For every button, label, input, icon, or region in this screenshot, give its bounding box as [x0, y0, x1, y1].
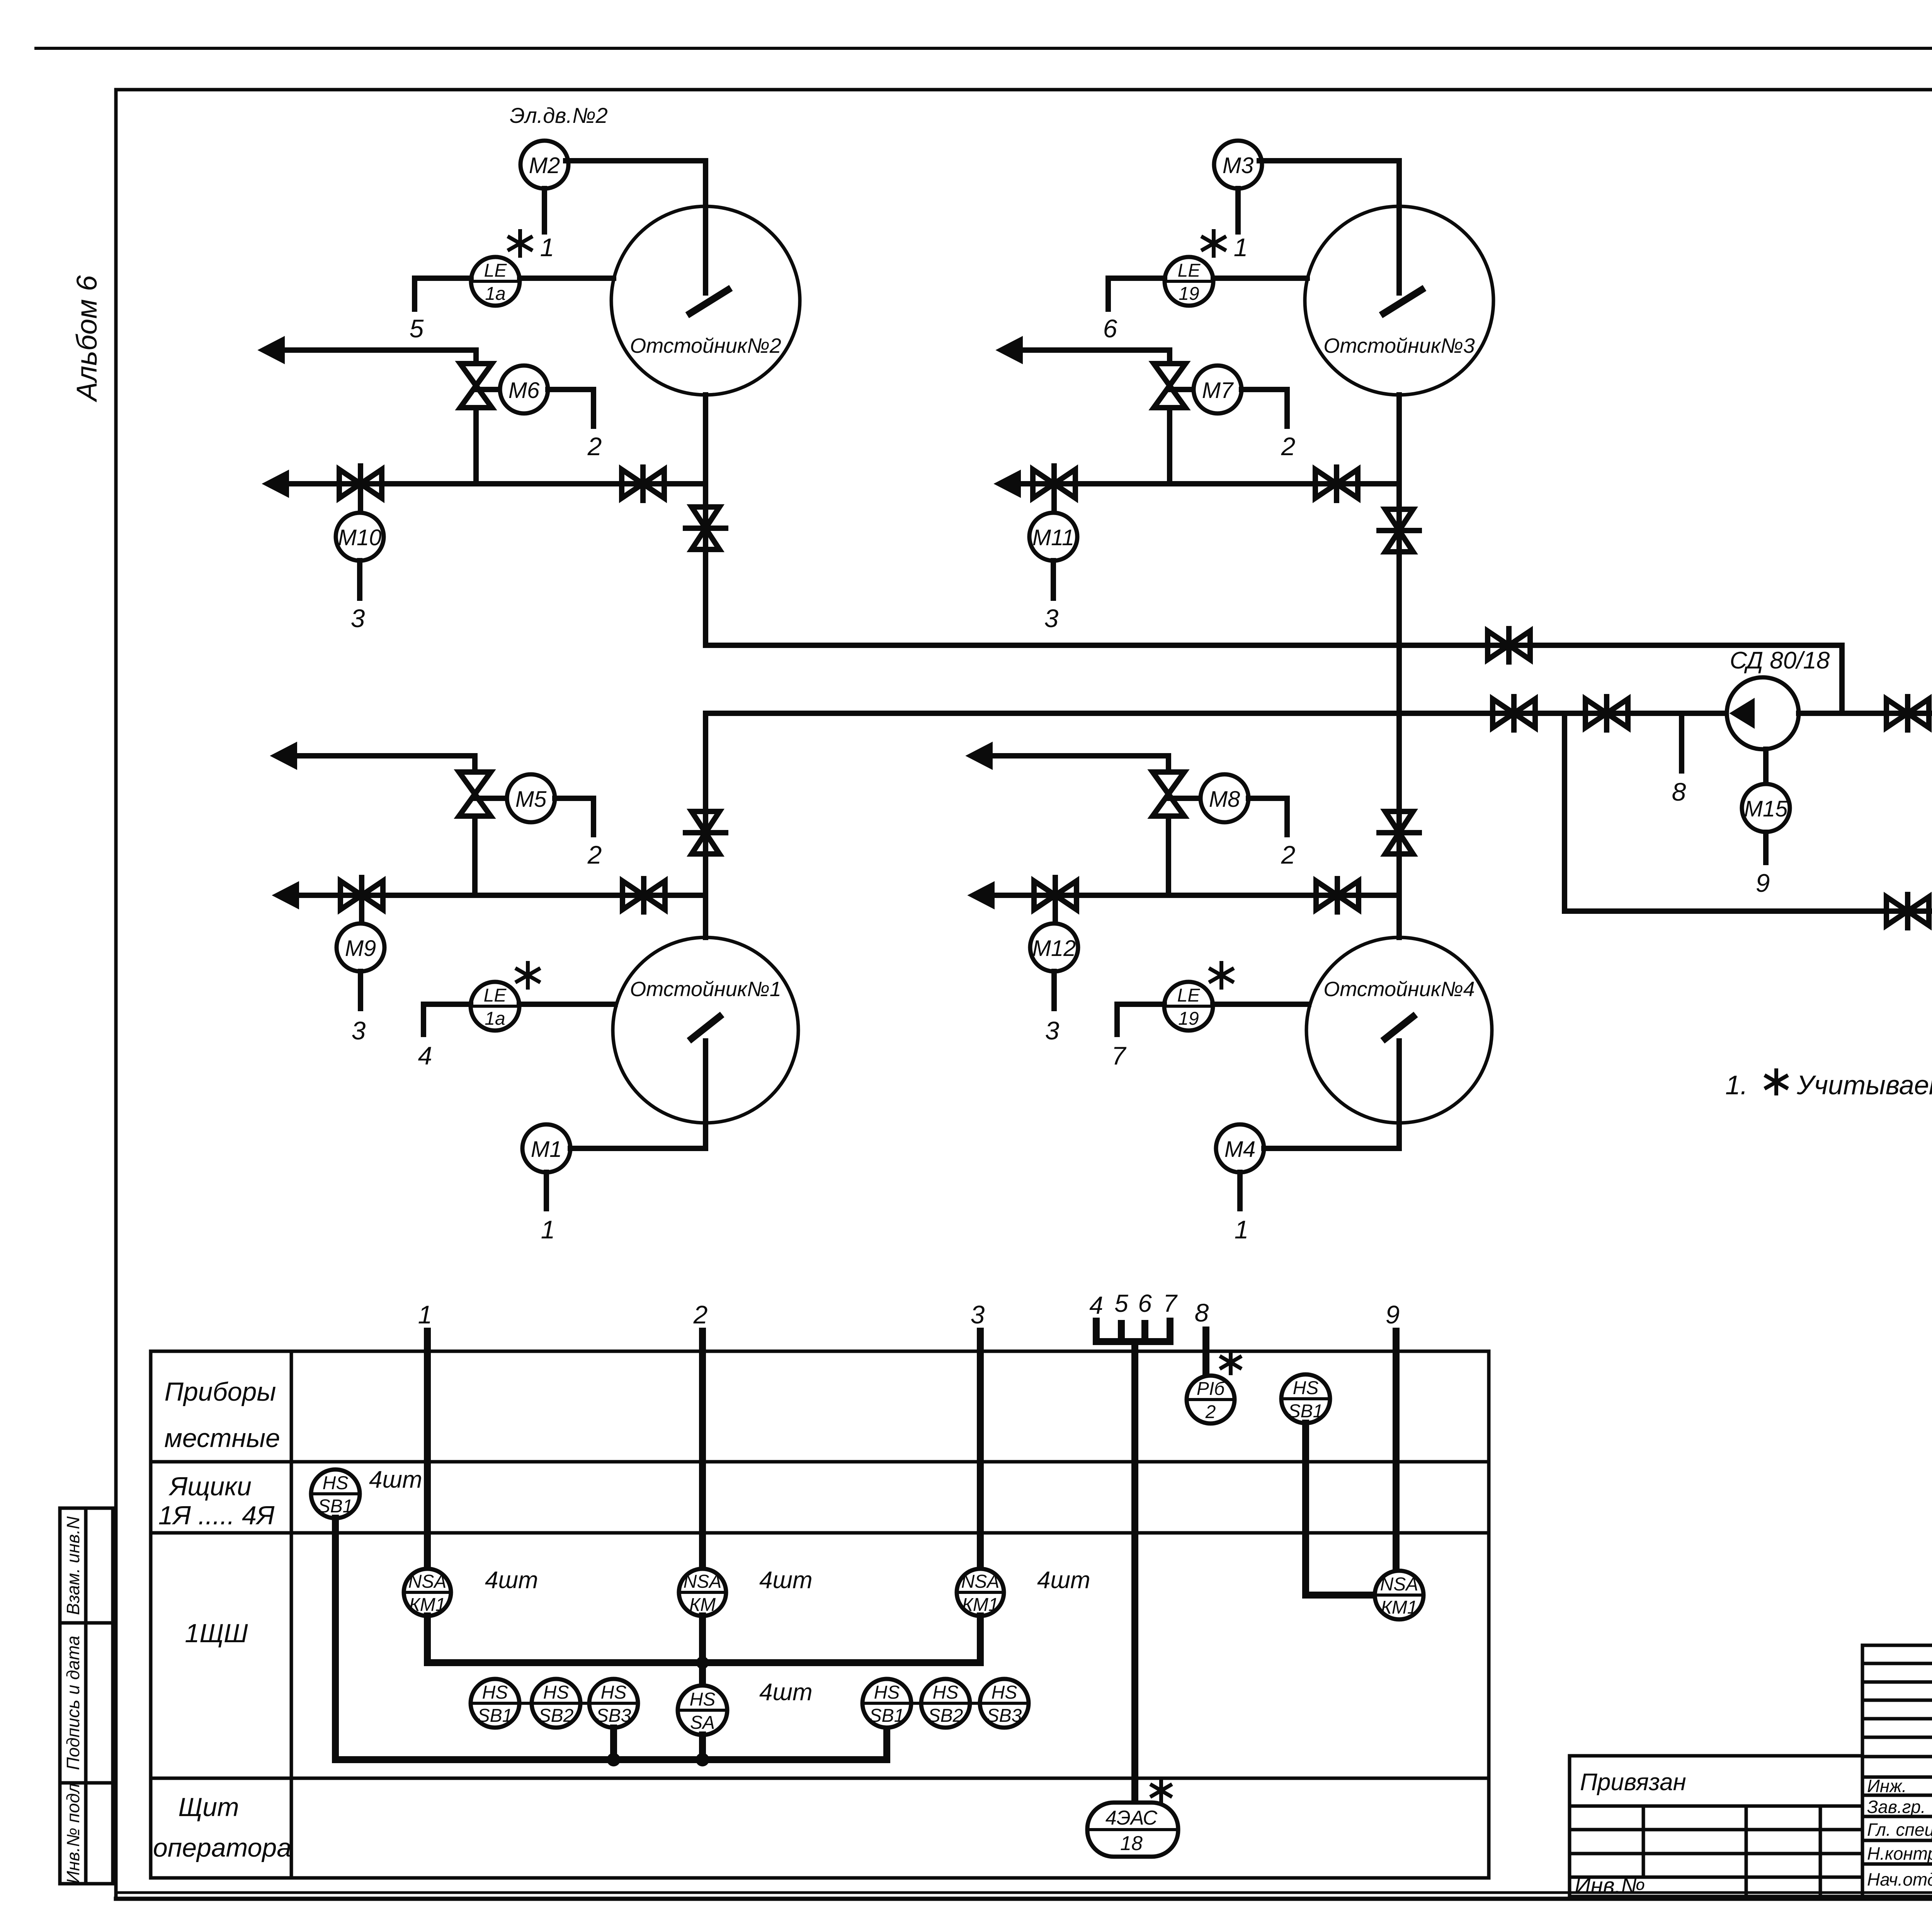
gate valve pump discharge — [1886, 699, 1929, 728]
svg-text:HS: HS — [1293, 1378, 1319, 1398]
svg-text:4ЭАС: 4ЭАС — [1105, 1807, 1158, 1829]
wire HS/SB1 down — [335, 1518, 887, 1760]
wire stub 3 of М10 — [357, 561, 362, 598]
svg-text:М9: М9 — [345, 936, 376, 961]
svg-text:NSA: NSA — [684, 1571, 722, 1592]
valve stem to М9 — [359, 878, 364, 923]
svg-text:SB1: SB1 — [318, 1496, 353, 1517]
svg-text:М15: М15 — [1744, 796, 1788, 821]
gate valve of М10 — [339, 469, 382, 498]
gate valve of М12 — [1034, 881, 1077, 910]
svg-text:М7: М7 — [1202, 378, 1234, 403]
svg-text:М6: М6 — [509, 378, 540, 403]
svg-text:3: 3 — [1045, 1016, 1060, 1045]
table column line — [290, 1351, 293, 1878]
title name rows — [1862, 1794, 1932, 1797]
tank circle Отстойник№4 — [1306, 937, 1492, 1123]
svg-text:SB1: SB1 — [869, 1706, 905, 1726]
control valve of М7 — [1154, 364, 1185, 408]
svg-text:9: 9 — [1386, 1300, 1400, 1329]
wire HS/SB1 to NSA — [1306, 1423, 1375, 1595]
svg-text:1: 1 — [540, 233, 554, 262]
svg-text:LE: LE — [1178, 260, 1201, 281]
svg-text:Инв.№ подл: Инв.№ подл — [63, 1783, 83, 1884]
gate valve of М11 — [1033, 469, 1075, 498]
svg-text:4шт: 4шт — [759, 1679, 813, 1706]
svg-text:М2: М2 — [529, 153, 560, 178]
wire stub 1 under М2 — [542, 189, 547, 232]
svg-text:М10: М10 — [338, 525, 382, 550]
svg-text:NSA: NSA — [961, 1571, 1000, 1592]
svg-text:18: 18 — [1120, 1832, 1143, 1855]
wire right HS/SB1 up — [883, 1728, 890, 1760]
wire valve to М8 — [1168, 796, 1201, 801]
svg-text:Отстойник№1: Отстойник№1 — [630, 978, 781, 1001]
wire М1 to tank — [570, 1146, 706, 1151]
gate valve collector B 1 — [1493, 699, 1535, 728]
svg-text:3: 3 — [351, 604, 365, 633]
hourglass valve tank4 inlet — [1385, 811, 1413, 854]
manifold line 2 — [990, 893, 1399, 898]
wire М3 to tank — [1259, 158, 1399, 163]
hourglass valve tank3 drain — [1385, 509, 1413, 552]
arrow line 2 — [275, 884, 298, 907]
wire pump to M15 — [1763, 749, 1769, 784]
svg-text:8: 8 — [1672, 777, 1686, 806]
svg-text:Привязан: Привязан — [1580, 1769, 1686, 1796]
svg-text:КМ1: КМ1 — [409, 1595, 446, 1615]
svg-text:LE: LE — [484, 985, 507, 1006]
table row line 3 — [151, 1531, 1489, 1535]
operator station 4ЭАС/18 — [1087, 1803, 1178, 1857]
wire stub 9 under M15 — [1763, 832, 1769, 862]
sheet top border line — [36, 47, 1932, 50]
wire LE left stub — [423, 1004, 471, 1034]
bus 3 wire lower — [977, 1616, 984, 1663]
asterisk — [526, 963, 530, 988]
valve stem to М12 — [1053, 878, 1058, 923]
stamp table outline — [1570, 1756, 1862, 1896]
svg-text:М4: М4 — [1225, 1137, 1256, 1162]
svg-text:4шт: 4шт — [1037, 1567, 1090, 1594]
svg-text:HS: HS — [482, 1682, 508, 1703]
button HS/SB2 — [532, 1679, 580, 1728]
svg-text:5: 5 — [1114, 1289, 1128, 1317]
svg-text:Отстойник№3: Отстойник№3 — [1323, 334, 1475, 357]
svg-text:5: 5 — [410, 314, 424, 343]
control valve stem — [1166, 816, 1171, 895]
svg-text:7: 7 — [1112, 1041, 1127, 1070]
junction ring — [609, 1755, 619, 1765]
wire stub 3 of М11 — [1051, 561, 1056, 598]
tank drain wire — [1396, 1041, 1402, 1148]
scraper hand — [692, 1017, 719, 1039]
svg-text:Приборы: Приборы — [165, 1377, 276, 1406]
svg-text:9: 9 — [1756, 869, 1770, 897]
svg-text:PIб: PIб — [1197, 1379, 1225, 1399]
svg-text:2: 2 — [1205, 1402, 1216, 1422]
bus 1 wire lower — [424, 1616, 431, 1663]
wire М4 to tank — [1264, 1146, 1399, 1151]
svg-text:1: 1 — [1235, 1215, 1249, 1244]
scraper hand — [1384, 290, 1422, 313]
svg-text:3: 3 — [352, 1016, 366, 1045]
wire stub 2 of М5 — [555, 798, 594, 835]
bus 1 wire — [424, 1331, 431, 1568]
outflow line 1 — [988, 756, 1168, 772]
buttons chain wire left — [495, 1702, 614, 1705]
wire valve to М5 — [475, 796, 507, 801]
svg-text:Щит: Щит — [178, 1793, 239, 1822]
gauge PIб/2 — [1187, 1376, 1235, 1423]
stamp columns — [1642, 1806, 1645, 1877]
svg-text:4: 4 — [418, 1041, 432, 1070]
motor М4 — [1216, 1124, 1264, 1172]
svg-text:КМ: КМ — [689, 1595, 716, 1615]
valve stem to М11 — [1051, 466, 1057, 513]
margin boxes outline — [60, 1508, 113, 1884]
svg-text:8: 8 — [1195, 1298, 1209, 1327]
svg-text:1а: 1а — [485, 1009, 505, 1029]
wire LE left stub — [415, 278, 471, 309]
svg-text:HS: HS — [323, 1473, 349, 1493]
svg-text:HS: HS — [874, 1682, 900, 1703]
wire LE left stub — [1117, 1004, 1164, 1034]
tank circle Отстойник№2 — [611, 206, 800, 395]
button HS/SB3 right — [980, 1679, 1029, 1728]
gate valve manifold — [1315, 469, 1358, 498]
tank drain wire — [703, 1041, 708, 1148]
svg-text:Инж.: Инж. — [1867, 1776, 1907, 1796]
control valve of М6 — [460, 364, 492, 408]
stub 8 wire — [1679, 713, 1684, 771]
svg-text:LE: LE — [484, 260, 507, 281]
svg-text:Эл.дв.№2: Эл.дв.№2 — [510, 103, 608, 128]
arrow line 2 — [971, 884, 993, 907]
bus 4567 merged wire — [1131, 1342, 1138, 1803]
svg-text:4: 4 — [1089, 1291, 1103, 1319]
margin box line 2 — [60, 1781, 113, 1785]
button HS/SB1 — [471, 1679, 519, 1728]
valve stem to М10 — [358, 466, 363, 513]
svg-text:1.: 1. — [1725, 1070, 1748, 1100]
asterisk — [1159, 1780, 1163, 1801]
tank2 drain vertical with corner — [706, 395, 1842, 645]
svg-text:КМ1: КМ1 — [1381, 1597, 1418, 1618]
svg-text:19: 19 — [1179, 284, 1199, 304]
arrow line 1 — [969, 744, 991, 767]
svg-text:1а: 1а — [485, 284, 505, 304]
asterisk — [1229, 1352, 1233, 1373]
svg-text:1: 1 — [541, 1215, 555, 1244]
svg-text:HS: HS — [543, 1682, 569, 1703]
inner frame left line — [114, 90, 118, 1899]
outflow line 1 — [293, 756, 475, 772]
bus 8 wire — [1202, 1330, 1209, 1376]
wire NSA horizontal bus — [427, 1659, 980, 1666]
outflow line 1 — [1018, 350, 1170, 364]
bus 9 wire — [1393, 1331, 1400, 1570]
wire valve to М7 — [1170, 387, 1193, 392]
svg-text:Гл. спец.: Гл. спец. — [1867, 1820, 1932, 1840]
contactor NSA/КМ1 bus9 — [1375, 1571, 1423, 1619]
motor М7 — [1194, 366, 1242, 413]
margin box column — [84, 1508, 88, 1884]
svg-text:NSA: NSA — [408, 1571, 447, 1592]
wire valve to М6 — [476, 387, 500, 392]
svg-text:2: 2 — [1281, 840, 1296, 869]
title ladder outline — [1862, 1645, 1932, 1896]
tank inlet drop wire — [1396, 161, 1402, 293]
svg-text:HS: HS — [933, 1682, 959, 1703]
inner frame bottom double line — [116, 1891, 1932, 1894]
wire stub 1 under М1 — [544, 1172, 549, 1209]
motor М12 — [1030, 923, 1078, 971]
tank1 vertical from collector B — [703, 713, 708, 937]
level sensor LE — [1164, 982, 1213, 1031]
gate valve of М9 — [340, 881, 383, 910]
svg-text:Взам. инв.N: Взам. инв.N — [63, 1516, 83, 1615]
control valve of М5 — [459, 772, 491, 816]
wire stub 2 of М8 — [1248, 798, 1287, 835]
svg-text:SB1: SB1 — [1288, 1401, 1323, 1422]
svg-text:Отстойник№2: Отстойник№2 — [630, 334, 781, 357]
motor М3 — [1214, 141, 1262, 189]
wire LE left stub — [1108, 278, 1165, 309]
hourglass valve tank1 inlet — [692, 811, 719, 854]
svg-text:Ящики: Ящики — [168, 1472, 252, 1501]
gate valve manifold — [622, 881, 665, 910]
button HS/SB1 boxes row — [311, 1469, 360, 1518]
button HS/SB3 — [589, 1679, 638, 1728]
control valve stem — [1167, 408, 1172, 484]
svg-text:Н.контр.: Н.контр. — [1867, 1844, 1932, 1864]
svg-text:Инв.№: Инв.№ — [1575, 1873, 1645, 1898]
motor М5 — [507, 774, 555, 822]
tank circle Отстойник№1 — [613, 937, 798, 1123]
wire LE to tank — [1213, 276, 1307, 281]
svg-text:SB3: SB3 — [987, 1706, 1022, 1726]
level sensor LE — [471, 982, 519, 1031]
table row line 2 — [151, 1460, 1489, 1464]
svg-text:6: 6 — [1138, 1289, 1152, 1317]
svg-text:М11: М11 — [1032, 525, 1075, 550]
svg-text:HS: HS — [690, 1689, 716, 1710]
gate valve collector A — [1488, 631, 1530, 660]
wire stub 3 of М12 — [1051, 971, 1057, 1009]
svg-text:Подпись и дата: Подпись и дата — [63, 1636, 83, 1770]
svg-text:3: 3 — [1044, 604, 1059, 633]
motor М1 — [522, 1124, 570, 1172]
svg-text:М12: М12 — [1032, 936, 1076, 961]
wire LE to tank — [520, 276, 614, 281]
asterisk — [1212, 231, 1216, 256]
svg-text:СД 80/18: СД 80/18 — [1730, 647, 1830, 674]
svg-text:2: 2 — [693, 1300, 708, 1329]
wire LE to tank — [519, 1002, 615, 1007]
title ladder thin rows — [1862, 1662, 1932, 1665]
level sensor LE — [1165, 257, 1213, 306]
control valve stem — [472, 816, 478, 895]
manifold line 2 — [294, 893, 706, 898]
svg-text:6: 6 — [1103, 314, 1117, 343]
svg-text:2: 2 — [587, 840, 602, 869]
wire HS/SA to lower bus — [699, 1735, 706, 1760]
motor М15 — [1742, 784, 1790, 832]
collector A corner drop — [1839, 645, 1845, 713]
stamp row Привязан line — [1570, 1804, 1862, 1808]
arrow line 1 — [261, 338, 283, 362]
motor М2 — [520, 141, 568, 189]
motor М10 — [336, 513, 384, 561]
bus 4567 bracket — [1096, 1321, 1170, 1342]
wire stub 1 under М4 — [1237, 1172, 1243, 1209]
svg-text:М3: М3 — [1223, 153, 1254, 178]
contactor NSA/КМ bus2 — [679, 1569, 726, 1616]
table outline — [151, 1351, 1489, 1878]
button HS/SB1 top right — [1281, 1374, 1330, 1423]
svg-text:Учитывается в разделе АОВ: Учитывается в разделе АОВ — [1796, 1070, 1932, 1100]
svg-text:1Я ..... 4Я: 1Я ..... 4Я — [158, 1501, 275, 1530]
scraper hand — [690, 290, 728, 313]
arrow line 1 — [273, 744, 296, 767]
pump casing corner wire — [1799, 711, 1932, 716]
manifold line 2 — [284, 481, 706, 486]
inner frame top line — [116, 88, 1932, 92]
contactor NSA/КМ1 bus1 — [404, 1569, 451, 1616]
tank circle Отстойник№3 — [1305, 206, 1493, 395]
svg-text:SB1: SB1 — [478, 1706, 513, 1726]
wire LE to tank — [1213, 1002, 1309, 1007]
svg-text:4шт: 4шт — [485, 1567, 538, 1594]
svg-text:КМ1: КМ1 — [962, 1595, 999, 1615]
svg-text:4шт: 4шт — [369, 1466, 422, 1493]
svg-text:HS: HS — [601, 1682, 627, 1703]
svg-text:1ЩШ: 1ЩШ — [185, 1619, 248, 1648]
motor М9 — [337, 923, 384, 971]
wire М2 to tank — [566, 158, 706, 163]
arrow line 2 — [997, 472, 1019, 495]
svg-text:4шт: 4шт — [759, 1567, 813, 1594]
wire stub 2 of М7 — [1242, 389, 1287, 426]
gate valve collector B 2 — [1585, 699, 1628, 728]
svg-text:2: 2 — [1281, 432, 1296, 461]
return line в чашу — [1565, 713, 1932, 911]
svg-text:NSA: NSA — [1380, 1574, 1418, 1595]
motor М11 — [1029, 513, 1077, 561]
selector HS/SA — [678, 1685, 727, 1735]
table row line 4 — [151, 1777, 1489, 1780]
svg-text:М5: М5 — [515, 787, 547, 812]
junction ring — [697, 1755, 707, 1765]
svg-text:3: 3 — [971, 1300, 985, 1329]
control valve of М8 — [1153, 772, 1184, 816]
svg-text:SB2: SB2 — [539, 1706, 574, 1726]
svg-text:7: 7 — [1163, 1289, 1178, 1317]
svg-text:Зав.гр.: Зав.гр. — [1867, 1797, 1926, 1817]
svg-text:Нач.отд.: Нач.отд. — [1867, 1869, 1932, 1889]
svg-text:19: 19 — [1178, 1009, 1199, 1029]
svg-text:2: 2 — [587, 432, 602, 461]
level sensor LE — [471, 257, 520, 306]
svg-text:LE: LE — [1177, 985, 1201, 1006]
bus 2 wire — [699, 1331, 706, 1568]
scraper hand — [1385, 1017, 1413, 1039]
motor М8 — [1201, 774, 1248, 822]
arrow line 1 — [999, 338, 1021, 362]
arrow line 2 — [265, 472, 287, 495]
outflow line 1 — [280, 350, 476, 364]
svg-text:SA: SA — [690, 1713, 715, 1733]
svg-text:М8: М8 — [1209, 787, 1240, 812]
button HS/SB2 right — [921, 1679, 970, 1728]
asterisk — [518, 231, 522, 256]
wire HS/SB3 down — [610, 1728, 617, 1760]
contactor NSA/КМ1 bus3 — [957, 1569, 1004, 1616]
wire stub 2 of М6 — [548, 389, 594, 426]
bus 3 wire — [977, 1331, 984, 1568]
junction dot — [696, 1656, 709, 1669]
buttons chain wire right — [887, 1702, 1004, 1705]
svg-text:Отстойник№4: Отстойник№4 — [1323, 978, 1475, 1001]
manifold line 2 — [1016, 481, 1399, 486]
wire stub 3 of М9 — [358, 971, 363, 1009]
svg-text:Альбом 6: Альбом 6 — [71, 275, 103, 403]
stamp rows — [1570, 1828, 1862, 1832]
svg-text:HS: HS — [992, 1682, 1017, 1703]
control valve stem — [473, 408, 479, 484]
tank3-tank4 shared vertical — [1396, 395, 1402, 937]
button HS/SB1 right — [862, 1679, 911, 1728]
asterisk — [1219, 963, 1223, 988]
svg-text:оператора: оператора — [153, 1833, 291, 1862]
gate valve return line — [1886, 897, 1929, 925]
tank inlet drop wire — [703, 161, 708, 293]
svg-text:М1: М1 — [531, 1137, 562, 1162]
hourglass valve tank2 drain — [692, 507, 719, 549]
motor М6 — [500, 366, 548, 413]
svg-text:SB3: SB3 — [596, 1706, 631, 1726]
gate valve manifold — [622, 469, 664, 498]
svg-text:SB2: SB2 — [928, 1706, 963, 1726]
gate valve manifold — [1316, 881, 1359, 910]
svg-text:1: 1 — [418, 1300, 432, 1329]
bus 2 wire lower — [699, 1616, 706, 1685]
margin box line 1 — [60, 1621, 113, 1625]
svg-text:местные: местные — [164, 1423, 280, 1453]
svg-text:1: 1 — [1234, 233, 1248, 262]
wire stub 1 under М3 — [1235, 189, 1241, 232]
pump СД80/18 — [1727, 677, 1799, 749]
collector B line — [706, 711, 1727, 716]
